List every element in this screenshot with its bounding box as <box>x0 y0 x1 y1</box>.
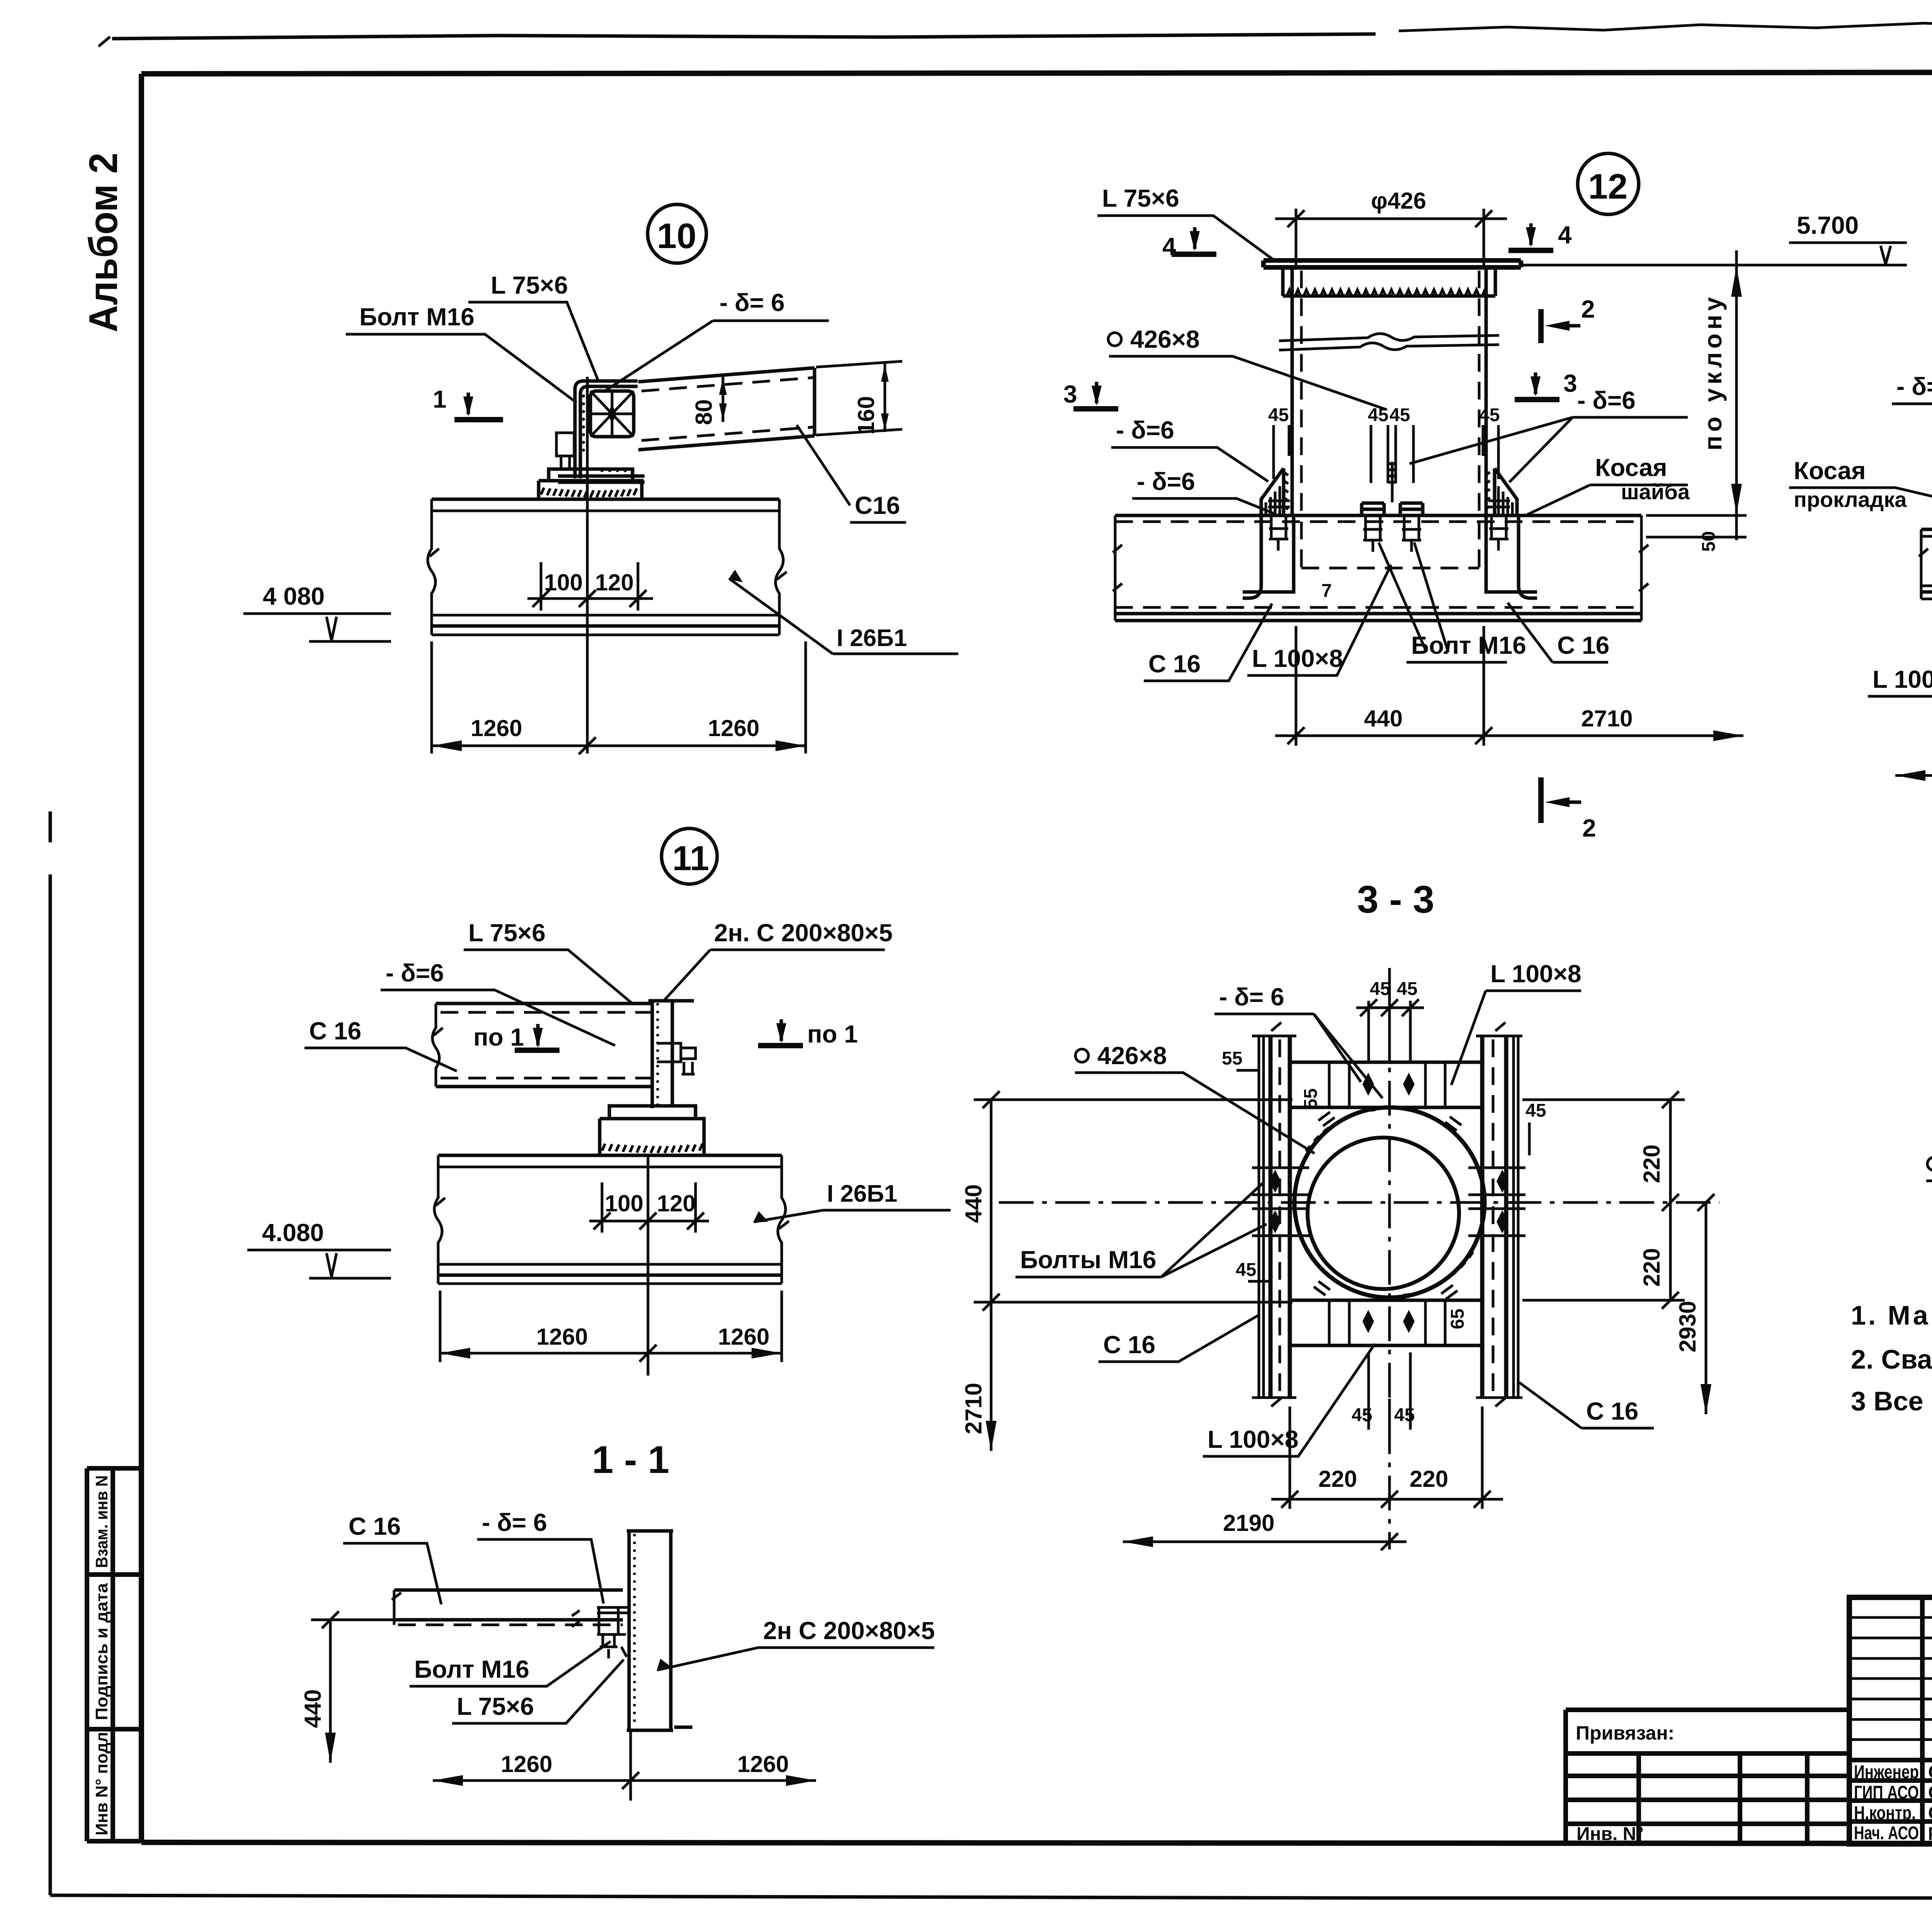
svg-text:160: 160 <box>853 396 879 435</box>
svg-text:- δ=6: - δ=6 <box>1116 416 1174 444</box>
svg-text:Косая: Косая <box>1595 454 1667 481</box>
svg-text:- δ=6: - δ=6 <box>386 959 444 987</box>
svg-text:1: 1 <box>433 385 447 413</box>
svg-text:- δ=6: - δ=6 <box>1896 372 1932 400</box>
svg-text:С 16: С 16 <box>1103 1331 1155 1359</box>
svg-text:- δ= 6: - δ= 6 <box>1219 983 1284 1011</box>
svg-text:Инв. N°: Инв. N° <box>1577 1824 1644 1844</box>
svg-text:45: 45 <box>1370 979 1390 999</box>
svg-text:2710: 2710 <box>1581 706 1633 731</box>
svg-text:- δ= 6: - δ= 6 <box>719 289 785 316</box>
svg-text:4 080: 4 080 <box>263 582 325 610</box>
svg-text:по 1: по 1 <box>807 1020 858 1048</box>
svg-text:2н. С 200×80×5: 2н. С 200×80×5 <box>714 919 893 947</box>
svg-text:220: 220 <box>1318 1466 1357 1492</box>
svg-text:2190: 2190 <box>1223 1510 1274 1536</box>
svg-text:120: 120 <box>657 1190 696 1216</box>
svg-text:440: 440 <box>1364 706 1403 731</box>
svg-text:3: 3 <box>1563 369 1577 397</box>
svg-text:1260: 1260 <box>536 1324 588 1350</box>
svg-text:45: 45 <box>1368 405 1388 425</box>
svg-text:50: 50 <box>1699 531 1719 552</box>
svg-text:55: 55 <box>1301 1088 1321 1109</box>
svg-text:- δ=6: - δ=6 <box>1137 468 1195 495</box>
svg-text:Сорокин: Сорокин <box>1928 1782 1932 1803</box>
svg-text:С 16: С 16 <box>1148 650 1201 678</box>
svg-text:2: 2 <box>1582 814 1596 842</box>
svg-text:Косая: Косая <box>1794 457 1866 485</box>
svg-text:1260: 1260 <box>718 1324 769 1350</box>
svg-text:L 75×6: L 75×6 <box>468 919 546 947</box>
svg-text:- δ= 6: - δ= 6 <box>482 1509 547 1536</box>
svg-text:45: 45 <box>1479 405 1500 425</box>
svg-text:Альбом 2: Альбом 2 <box>81 153 126 332</box>
svg-text:Болт М16: Болт М16 <box>414 1655 529 1683</box>
svg-text:4: 4 <box>1558 221 1572 249</box>
svg-text:1260: 1260 <box>471 715 522 741</box>
svg-text:45: 45 <box>1389 405 1410 425</box>
svg-text:L 100×8: L 100×8 <box>1872 665 1932 693</box>
svg-text:L 75×6: L 75×6 <box>1102 184 1179 212</box>
svg-text:L 75×6: L 75×6 <box>457 1692 534 1720</box>
svg-text:Болт М16: Болт М16 <box>359 303 474 331</box>
svg-text:1 - 1: 1 - 1 <box>592 1438 669 1481</box>
svg-text:45: 45 <box>1526 1100 1546 1121</box>
svg-text:Болты М16: Болты М16 <box>1020 1246 1156 1274</box>
svg-text:45: 45 <box>1236 1260 1256 1280</box>
svg-text:Ротенштейн: Ротенштейн <box>1928 1824 1932 1844</box>
svg-text:L 100×8: L 100×8 <box>1252 645 1343 672</box>
svg-text:426×8: 426×8 <box>1097 1042 1167 1070</box>
svg-text:I 26Б1: I 26Б1 <box>837 625 907 651</box>
svg-text:2н С 200×80×5: 2н С 200×80×5 <box>763 1617 935 1645</box>
svg-text:55: 55 <box>1222 1048 1242 1069</box>
svg-text:3: 3 <box>1063 380 1077 408</box>
svg-text:45: 45 <box>1397 979 1417 999</box>
svg-text:Сорокин: Сорокин <box>1928 1803 1932 1823</box>
svg-text:2: 2 <box>1581 295 1595 323</box>
svg-text:426×8: 426×8 <box>1130 325 1200 353</box>
svg-text:4.080: 4.080 <box>262 1219 324 1247</box>
svg-text:440: 440 <box>300 1689 326 1728</box>
svg-text:2930: 2930 <box>1675 1301 1701 1352</box>
svg-text:по 1: по 1 <box>473 1023 524 1051</box>
svg-text:ГИП АСО: ГИП АСО <box>1854 1782 1919 1803</box>
svg-text:3 - 3: 3 - 3 <box>1357 878 1434 921</box>
svg-text:С16: С16 <box>855 492 900 519</box>
svg-text:Привязан:: Привязан: <box>1576 1722 1674 1744</box>
svg-text:Семенов: Семенов <box>1928 1762 1932 1782</box>
svg-text:45: 45 <box>1268 405 1289 425</box>
svg-text:5.700: 5.700 <box>1797 211 1859 239</box>
svg-text:Инв N° подл: Инв N° подл <box>92 1732 111 1835</box>
svg-text:Болт М16: Болт М16 <box>1411 631 1526 659</box>
svg-text:L 75×6: L 75×6 <box>491 271 568 299</box>
svg-text:3 Все монтажные сварные швы: 3 Все монтажные сварные швы приняты высо… <box>1851 1386 1932 1416</box>
svg-text:Взам. инв N: Взам. инв N <box>92 1475 111 1568</box>
svg-text:С 16: С 16 <box>1557 631 1609 659</box>
svg-text:10: 10 <box>657 216 696 256</box>
svg-text:С 16: С 16 <box>309 1017 361 1045</box>
svg-text:100: 100 <box>544 570 583 595</box>
svg-text:шайба: шайба <box>1621 480 1690 504</box>
svg-text:L 100×8: L 100×8 <box>1490 960 1581 988</box>
svg-text:440: 440 <box>961 1184 986 1223</box>
svg-text:1260: 1260 <box>737 1751 789 1777</box>
svg-text:80: 80 <box>691 399 717 425</box>
svg-text:100: 100 <box>605 1190 643 1216</box>
svg-text:12: 12 <box>1588 167 1628 206</box>
svg-text:Инженер: Инженер <box>1854 1762 1919 1782</box>
svg-text:φ426: φ426 <box>1371 188 1426 214</box>
svg-text:Нач. АСО: Нач. АСО <box>1854 1823 1919 1844</box>
svg-text:220: 220 <box>1639 1248 1665 1287</box>
svg-text:1. Маркировку узлов смотрите: 1. Маркировку узлов смотрите на листе КМ… <box>1851 1300 1932 1330</box>
svg-text:2. Сварку вести электродами: 2. Сварку вести электродами типа Э42 по … <box>1851 1344 1932 1374</box>
svg-text:по уклону: по уклону <box>1699 293 1727 451</box>
svg-text:С 16: С 16 <box>1586 1397 1638 1425</box>
svg-text:220: 220 <box>1639 1145 1665 1183</box>
svg-text:I 26Б1: I 26Б1 <box>827 1180 897 1207</box>
svg-text:7: 7 <box>1321 581 1332 601</box>
svg-text:120: 120 <box>595 570 634 595</box>
svg-text:1260: 1260 <box>708 715 759 741</box>
svg-text:Н.контр.: Н.контр. <box>1854 1803 1916 1823</box>
svg-text:65: 65 <box>1447 1309 1468 1329</box>
svg-text:2710: 2710 <box>961 1383 986 1434</box>
svg-text:1260: 1260 <box>501 1751 552 1777</box>
svg-text:220: 220 <box>1410 1466 1448 1492</box>
svg-text:С 16: С 16 <box>349 1512 401 1540</box>
svg-text:L 100×8: L 100×8 <box>1207 1425 1298 1453</box>
svg-text:11: 11 <box>672 839 709 878</box>
svg-text:прокладка: прокладка <box>1794 487 1907 512</box>
svg-text:Подпись и дата: Подпись и дата <box>92 1583 111 1720</box>
svg-text:- δ=6: - δ=6 <box>1577 386 1636 414</box>
